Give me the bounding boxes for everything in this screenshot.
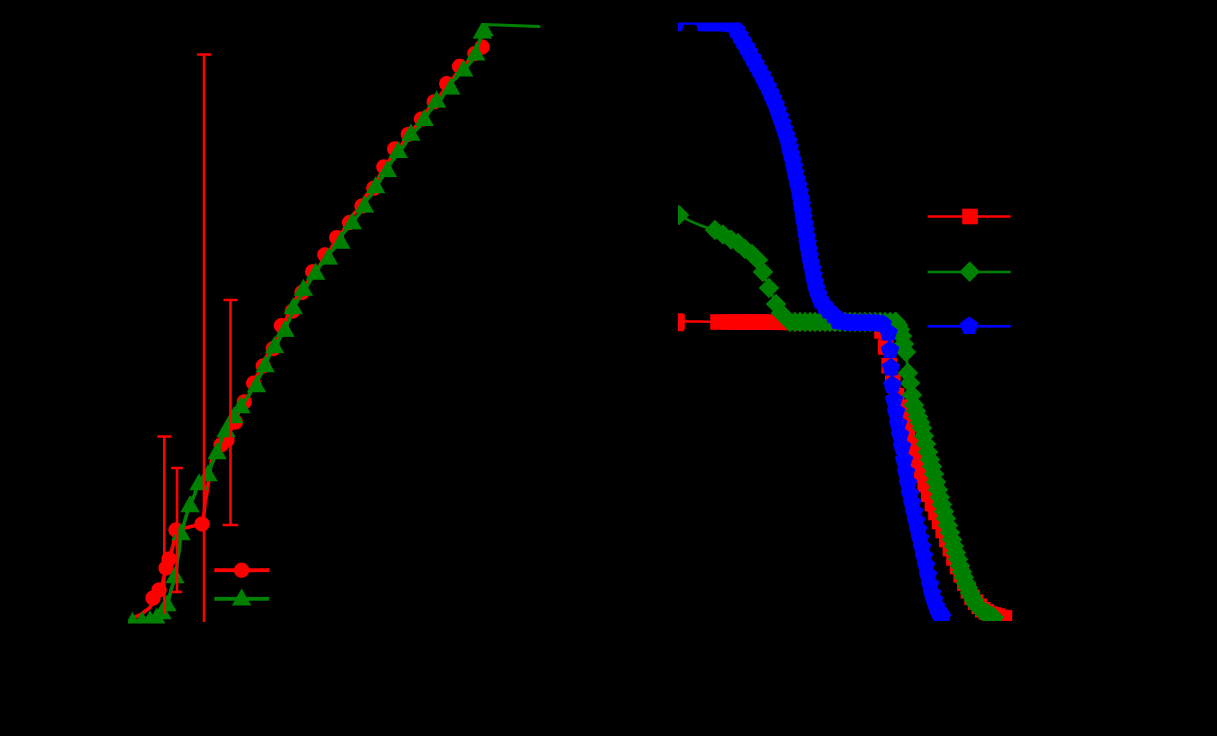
- left green plateau line: [483, 25, 539, 27]
- right legend green entry: [928, 271, 1011, 274]
- right green curve line: [679, 215, 994, 618]
- right blue curve line: [676, 24, 942, 618]
- error bar 3: [157, 437, 171, 615]
- right red curve line: [680, 322, 1005, 619]
- right green curve markers: [669, 205, 1005, 628]
- error bar 1: [197, 55, 211, 623]
- right legend red entry: [928, 215, 1011, 218]
- error bar 4: [171, 468, 183, 592]
- right red curve markers: [669, 314, 1012, 626]
- left red curve markers: [145, 39, 489, 605]
- left green curve line: [129, 29, 484, 622]
- left green curve markers: [123, 19, 494, 629]
- right blue curve markers: [667, 14, 952, 625]
- right legend blue entry: [928, 325, 1011, 328]
- left red curve line: [133, 47, 482, 618]
- right red error cap: [677, 315, 684, 331]
- left legend red entry: [214, 568, 269, 572]
- error bar 2: [223, 300, 239, 525]
- left legend green entry: [214, 597, 269, 601]
